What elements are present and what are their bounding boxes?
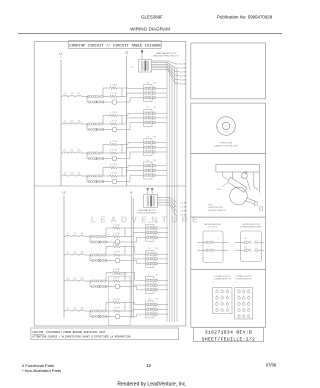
svg-text:4-1 RD4: 4-1 RD4	[110, 112, 117, 114]
door switch left box	[203, 231, 223, 263]
wire branch SU3	[86, 153, 88, 159]
wire OV4 connector out	[157, 305, 168, 314]
svg-text:OVEN LIGHT: OVEN LIGHT	[219, 142, 233, 144]
wire SU2 to connector	[122, 113, 144, 129]
wire OV3 to connector	[125, 273, 146, 290]
door switch right row 2	[235, 247, 264, 252]
wire feed OV3	[64, 280, 66, 282]
wire feed SU3	[61, 152, 63, 154]
svg-text:P-4: P-4	[146, 82, 149, 84]
wire branch SU1	[86, 97, 88, 103]
wire OV2 connector out	[157, 254, 168, 263]
svg-text:4: 4	[218, 246, 219, 248]
switch SU1 upper	[87, 95, 105, 98]
wire SU2 to switch	[81, 123, 87, 125]
terminal block label	[137, 209, 157, 215]
wire OV1 connector out	[157, 228, 168, 237]
wire loop OV4	[106, 303, 113, 312]
fuse OV1b	[70, 233, 77, 236]
wire SU2 connector out	[155, 113, 167, 122]
wire OV2 to connector	[125, 247, 146, 264]
wire loop SU2	[103, 116, 110, 125]
connector OV2 outer pins	[155, 253, 157, 265]
connector SU1 pins	[145, 87, 151, 99]
label SU4 pins	[146, 160, 156, 162]
wire feed OV2	[64, 254, 66, 256]
wire P12 top feed	[141, 50, 143, 60]
connector OV2 pins	[147, 253, 153, 265]
wire stubs labels right upper	[180, 64, 187, 86]
door switch right label	[240, 224, 262, 229]
wire loop OV2	[106, 247, 113, 256]
svg-text:R-6: R-6	[155, 299, 158, 301]
wire fan terminal block	[157, 198, 177, 217]
switch SU3 lower	[87, 157, 104, 160]
svg-text:FAISCEAU PRINCIPAL P12: FAISCEAU PRINCIPAL P12	[153, 55, 180, 58]
resistor OV2 mid	[108, 252, 125, 257]
svg-text:L-4 RD: L-4 RD	[180, 215, 187, 217]
cooktop circuit title box	[69, 40, 162, 48]
wire L1 bus upper	[60, 60, 62, 186]
svg-text:P-4: P-4	[146, 137, 149, 139]
svg-text:4-1: 4-1	[67, 278, 70, 280]
wire feed SU2	[61, 123, 63, 125]
surface element OV1	[105, 240, 125, 245]
svg-text:R-6: R-6	[153, 82, 156, 84]
surface element OV4	[105, 314, 125, 319]
wire SU4 connector out	[155, 166, 167, 175]
fuse SU2b	[67, 121, 74, 124]
latch label	[208, 204, 226, 212]
connector SU1 body	[144, 85, 152, 102]
supply triangles	[146, 188, 153, 194]
label OV3 pins	[148, 274, 158, 276]
connector P12 body	[138, 60, 151, 73]
connector P11 box	[235, 288, 253, 319]
connector SU4 outer pins	[153, 165, 155, 177]
fuse SU2a	[62, 121, 67, 124]
svg-text:K-4 BU: K-4 BU	[180, 76, 187, 78]
fuse SU4b	[67, 173, 74, 176]
svg-text:PLAQUE A BORNES: PLAQUE A BORNES	[137, 212, 157, 215]
resistor OV4 top	[113, 299, 120, 304]
oven light bulb	[217, 117, 236, 136]
resistor OV1 top	[113, 225, 120, 230]
svg-text:TERMINAL BLOCK: TERMINAL BLOCK	[138, 209, 157, 212]
svg-text:R-6: R-6	[155, 274, 158, 276]
connector OV1 outer pins	[155, 227, 157, 239]
door switch left row 1	[197, 238, 228, 243]
bake element sub-box	[109, 273, 131, 325]
title block box	[193, 327, 263, 341]
right box B oven light	[191, 103, 266, 154]
connector P11 label	[235, 276, 252, 284]
connector OV1 pins	[147, 227, 153, 239]
svg-text:4-1 RD4: 4-1 RD4	[110, 85, 117, 87]
wire L1 bus lower	[63, 196, 65, 319]
surface element OV2	[105, 258, 125, 263]
door switch left row 2	[197, 246, 228, 251]
svg-text:P-4: P-4	[146, 160, 149, 162]
wire OV4 to connector	[125, 303, 146, 317]
header rule	[18, 33, 282, 35]
connector P12 label	[153, 52, 180, 58]
wire feed OV1	[64, 236, 66, 238]
svg-text:P-4: P-4	[146, 107, 149, 109]
svg-text:R-6: R-6	[155, 222, 158, 224]
switch OV3 upper	[90, 280, 108, 283]
terminal block body	[144, 194, 158, 207]
caution text english	[32, 331, 106, 334]
resistor SU2 top	[110, 112, 117, 117]
fuse OV3a	[66, 278, 71, 281]
svg-text:LATCH MOTOR: LATCH MOTOR	[208, 206, 223, 209]
svg-text:4: 4	[212, 282, 213, 284]
right box E connectors	[191, 269, 266, 327]
connector SU4 pins	[145, 165, 151, 177]
fuse SU3a	[62, 150, 67, 153]
svg-text:CONNECTEUR P10: CONNECTEUR P10	[214, 279, 231, 281]
wire OV3 to switch	[84, 280, 90, 282]
svg-text:07/06: 07/06	[266, 363, 277, 368]
wire loop SU4 right	[117, 168, 122, 177]
wire feed SU4	[61, 175, 63, 177]
svg-text:4-1 RD4: 4-1 RD4	[110, 164, 117, 166]
wire branch OV4	[89, 311, 91, 317]
svg-text:1: 1	[208, 238, 209, 240]
fuse SU2c	[74, 121, 81, 124]
switch SU4 upper	[87, 175, 105, 178]
svg-text:ATTENTION:COUPEZ L'ALIMENTATIO: ATTENTION:COUPEZ L'ALIMENTATION AVANT D'…	[32, 335, 131, 339]
svg-text:316271934 REV:B: 316271934 REV:B	[205, 330, 252, 336]
switch OV2 upper	[90, 254, 108, 257]
surface element SU1	[102, 100, 122, 105]
resistor SU3 top	[110, 141, 117, 146]
fuse SU4c	[74, 173, 81, 176]
svg-text:2 3 1 R 4 3: 2 3 1 R 4 3	[208, 227, 217, 229]
label OV1 pins	[148, 222, 158, 224]
wire loop OV3	[106, 273, 113, 282]
latch arrow	[217, 183, 228, 191]
switch SU2 lower	[87, 128, 104, 131]
svg-text:LAMPE DU FOUR 40 W: LAMPE DU FOUR 40 W	[214, 145, 239, 148]
connector OV3 body	[146, 277, 154, 294]
main circuit outer box	[34, 42, 186, 327]
resistor OV3 top	[113, 269, 120, 274]
connector SU3 pins	[145, 141, 151, 153]
svg-text:WIRING DIAGRAM: WIRING DIAGRAM	[130, 27, 170, 32]
fuse SU3c	[74, 150, 81, 153]
switch OV2 lower	[90, 259, 107, 262]
fuse OV2b	[70, 252, 77, 255]
wire L2 bus upper	[126, 56, 128, 187]
svg-text:1-8 YW: 1-8 YW	[110, 150, 116, 152]
caution box	[31, 328, 179, 340]
fuse OV4b	[70, 308, 77, 311]
connector SU4 body	[144, 162, 152, 179]
svg-text:P-4: P-4	[148, 274, 151, 276]
svg-text:4-1 RD4: 4-1 RD4	[110, 141, 117, 143]
connector SU2 body	[144, 109, 152, 126]
connector OV1 body	[146, 224, 154, 241]
resistor SU4 top	[110, 164, 117, 169]
svg-text:P-4: P-4	[148, 222, 151, 224]
svg-text:L1: L1	[62, 191, 66, 195]
resistor SU2 mid	[105, 121, 122, 126]
svg-text:1-8 YW: 1-8 YW	[113, 278, 119, 280]
wire feed OV4	[64, 310, 66, 312]
svg-text:1-8 YW: 1-8 YW	[110, 93, 116, 95]
fuse SU3b	[67, 150, 74, 153]
latch bracket	[216, 165, 260, 193]
wire loop SU1	[103, 88, 110, 97]
wire loop SU2 right	[117, 116, 122, 125]
svg-text:MAIN HARNESS P12: MAIN HARNESS P12	[156, 52, 177, 55]
connector P10 label	[212, 276, 230, 284]
surface element OV3	[105, 284, 125, 289]
wire feed SU1	[61, 96, 63, 98]
wire loop OV1 right	[120, 228, 125, 237]
wire stubs labels right lower	[180, 203, 187, 217]
svg-text:4-1: 4-1	[64, 173, 67, 175]
label SU2 pins	[146, 107, 156, 109]
wire loop OV1	[106, 228, 113, 237]
svg-text:1-8 YW: 1-8 YW	[110, 121, 116, 123]
connector SU1 outer pins	[153, 87, 155, 99]
wire branch OV2	[89, 255, 91, 261]
svg-text:P-4: P-4	[148, 248, 151, 250]
wire OV4 to switch	[84, 310, 90, 312]
svg-text:Rendered by LeadVenture, Inc.: Rendered by LeadVenture, Inc.	[117, 381, 186, 387]
right box D switches	[191, 217, 266, 269]
wire loop SU3	[103, 145, 110, 154]
section divider	[34, 185, 186, 187]
connector OV2 body	[146, 250, 154, 267]
wire loop OV2 right	[120, 247, 125, 256]
wire loop SU4	[103, 168, 110, 177]
right box A	[191, 43, 266, 99]
wire loop OV3 right	[120, 273, 125, 282]
connector SU2 outer pins	[153, 112, 155, 124]
connector P10 pins	[216, 289, 229, 311]
wire SU1 to connector	[122, 88, 144, 102]
fuse OV3c	[77, 278, 84, 281]
svg-text:4-1: 4-1	[67, 233, 70, 235]
svg-text:COMMUTATEUR PORTE: COMMUTATEUR PORTE	[240, 226, 262, 229]
latch rod	[228, 177, 248, 192]
switch OV4 upper	[90, 310, 108, 313]
svg-text:L2: L2	[125, 51, 129, 55]
fuse SU1b	[67, 93, 74, 96]
wire SU3 to connector	[122, 143, 144, 159]
wire harness verticals	[167, 62, 177, 322]
latch link	[245, 198, 257, 204]
fuse SU1a	[62, 93, 67, 96]
resistor SU4 mid	[105, 173, 122, 178]
latch pivot	[241, 172, 250, 191]
svg-text:GLES389F: GLES389F	[141, 14, 163, 19]
wire OV1 to switch	[84, 236, 90, 238]
wire loop SU3 right	[117, 145, 122, 154]
fuse SU1c	[74, 93, 81, 96]
wire SU1 connector out	[155, 88, 167, 97]
door switch left label	[204, 224, 221, 229]
right box C latch	[191, 154, 266, 218]
svg-text:R-6: R-6	[153, 107, 156, 109]
resistor SU3 mid	[105, 150, 122, 155]
resistor OV4 mid	[108, 308, 125, 313]
svg-text:Publication No: 5995470928: Publication No: 5995470928	[217, 14, 273, 19]
label OV4 pins	[148, 299, 158, 301]
svg-text:K-5 BU: K-5 BU	[180, 80, 187, 82]
svg-text:4-1 RD4: 4-1 RD4	[113, 243, 120, 245]
switch SU4 lower	[87, 180, 104, 183]
wire OV3 connector out	[157, 280, 168, 289]
svg-text:2: 2	[208, 246, 209, 248]
svg-text:CAUTION: DISCONNECT POWER BEFO: CAUTION: DISCONNECT POWER BEFORE SERVICI…	[32, 331, 106, 334]
svg-text:N: N	[130, 191, 132, 195]
svg-text:L1: L1	[59, 52, 63, 56]
svg-text:4-1: 4-1	[64, 121, 67, 123]
fuse SU4a	[62, 173, 67, 176]
connector OV4 body	[146, 301, 154, 318]
connector SU3 body	[144, 139, 152, 156]
wire branch OV1	[89, 237, 91, 243]
wire OV2 to switch	[84, 254, 90, 256]
switch OV3 lower	[90, 285, 107, 288]
svg-text:4-1: 4-1	[67, 252, 70, 254]
fuse OV1c	[77, 233, 84, 236]
fuse OV3b	[70, 278, 77, 281]
wire SU3 connector out	[155, 143, 167, 152]
connector OV4 pins	[147, 304, 153, 316]
svg-text:4-1: 4-1	[64, 150, 67, 152]
connector OV4 outer pins	[155, 304, 157, 316]
svg-text:4-1 RD4: 4-1 RD4	[113, 225, 120, 227]
svg-text:4-1: 4-1	[67, 308, 70, 310]
switch OV4 lower	[90, 315, 107, 318]
wire SU3 to switch	[81, 152, 87, 154]
svg-text:4-1: 4-1	[64, 93, 67, 95]
svg-text:* Non-Illustrated Parts: * Non-Illustrated Parts	[22, 368, 61, 373]
svg-text:K-2 BU: K-2 BU	[180, 68, 187, 70]
wire fan from P12	[152, 61, 180, 84]
svg-text:L-1 RD: L-1 RD	[180, 203, 187, 205]
svg-text:R-6: R-6	[153, 160, 156, 162]
fuse OV2c	[77, 252, 84, 255]
surface element SU2	[102, 127, 122, 132]
svg-text:3: 3	[218, 238, 219, 240]
connector OV3 pins	[147, 279, 153, 291]
wire OV1 to connector	[125, 228, 146, 242]
switch SU1 lower	[87, 101, 104, 104]
svg-text:L-2 RD: L-2 RD	[180, 207, 187, 209]
fuse OV1a	[66, 233, 71, 236]
svg-text:K-3 BU: K-3 BU	[180, 72, 187, 74]
wire branch OV3	[89, 281, 91, 287]
svg-text:SHEET/FEUILLE:2/2: SHEET/FEUILLE:2/2	[202, 337, 256, 343]
label OV2 pins	[148, 248, 158, 250]
latch end squares	[254, 202, 263, 210]
switch OV1 upper	[90, 235, 108, 238]
wire branch SU2	[86, 124, 88, 130]
oven light label	[214, 142, 239, 147]
resistor SU1 top	[110, 85, 117, 90]
label SU1 pins	[146, 82, 156, 84]
connector P11 pins	[238, 289, 250, 318]
svg-text:1-8 YW: 1-8 YW	[110, 173, 116, 175]
surface element SU4	[102, 179, 122, 184]
fuse OV2a	[66, 252, 71, 255]
switch SU2 upper	[87, 123, 105, 126]
svg-text:4-1 RD4: 4-1 RD4	[113, 269, 120, 271]
connector OV3 outer pins	[155, 279, 157, 291]
svg-text:COOKTOP CIRCUIT // CIRCUIT TAB: COOKTOP CIRCUIT // CIRCUIT TABLE CUISSON	[69, 43, 160, 48]
svg-text:MOTEUR VERROU: MOTEUR VERROU	[208, 210, 226, 212]
latch cam circle	[230, 187, 248, 205]
svg-text:R-6: R-6	[153, 137, 156, 139]
svg-text:- P -: - P -	[224, 126, 228, 128]
resistor SU1 mid	[105, 93, 122, 98]
svg-text:L-3 RD: L-3 RD	[180, 211, 187, 213]
wire L2 bus lower	[132, 196, 134, 319]
svg-text:# 40: # 40	[224, 131, 228, 133]
fuse OV4a	[66, 308, 71, 311]
door switch right row 1	[235, 238, 264, 244]
svg-text:4-1 RD4: 4-1 RD4	[113, 299, 120, 301]
svg-text:13: 13	[146, 363, 151, 368]
svg-text:K-1 BU: K-1 BU	[180, 64, 187, 66]
surface element SU3	[102, 156, 122, 161]
wire loop OV4 right	[120, 303, 125, 312]
connector SU2 pins	[145, 112, 151, 124]
connector SU3 outer pins	[153, 141, 155, 153]
svg-text:R-6: R-6	[155, 248, 158, 250]
svg-text:1: 1	[235, 282, 236, 284]
resistor OV2 top	[113, 243, 120, 248]
wire SU1 to switch	[81, 96, 87, 98]
door switch right box	[241, 231, 262, 262]
svg-text:1-8 YW: 1-8 YW	[113, 233, 119, 235]
connector P10 box	[213, 288, 232, 314]
label SU3 pins	[146, 137, 156, 139]
svg-text:K-6 BU: K-6 BU	[180, 84, 187, 86]
svg-text:1-8 YW: 1-8 YW	[113, 308, 119, 310]
fuse OV4c	[77, 308, 84, 311]
wire SU4 to connector	[122, 166, 144, 182]
wire branch SU4	[86, 176, 88, 182]
wire loop SU1 right	[117, 88, 122, 97]
switch SU3 upper	[87, 152, 105, 155]
wire SU4 to switch	[81, 175, 87, 177]
svg-text:1-8 YW: 1-8 YW	[113, 252, 119, 254]
switch OV1 lower	[90, 241, 107, 244]
svg-text:P-4: P-4	[148, 299, 151, 301]
svg-text:CONNECTEUR P11: CONNECTEUR P11	[235, 279, 252, 281]
resistor OV3 mid	[108, 278, 125, 283]
resistor OV1 mid	[108, 233, 125, 238]
